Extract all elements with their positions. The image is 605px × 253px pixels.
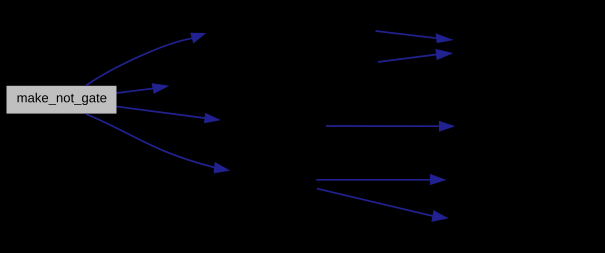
edge G: node4 -> node7 (lower horizontal) (316, 174, 445, 184)
edge H: node4 -> node8 (bottom diagonal) (317, 189, 448, 222)
edge D: make_not_gate -> node4 (bottom curve) (86, 114, 229, 173)
edge E2: node1 -> node5 (lower of pair) (378, 49, 452, 62)
edge C: make_not_gate -> node3 (117, 107, 220, 123)
node make_not_gate (7, 86, 117, 114)
edge A: make_not_gate -> node1 (top curve) (86, 33, 205, 85)
edge B: make_not_gate -> node2 (117, 84, 169, 94)
edge F: node3 -> node6 (middle horizontal) (326, 121, 454, 131)
edge E1: node1 -> node5 (upper of pair) (376, 31, 453, 43)
